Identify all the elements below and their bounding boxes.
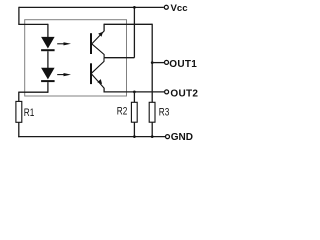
svg-text:OUT1: OUT1 bbox=[169, 59, 197, 70]
svg-text:Vcc: Vcc bbox=[171, 3, 189, 14]
resistor R1 body bbox=[16, 101, 22, 122]
wire between LED D1 and LED D2 bbox=[47, 51, 49, 68]
LED D2 triangle bbox=[41, 68, 55, 80]
resistor R3 body bbox=[149, 102, 155, 122]
node dot OUT1 junction bbox=[151, 61, 154, 64]
node dot R2 bottom junction bbox=[133, 135, 136, 138]
node dot R2 top junction bbox=[133, 91, 136, 94]
terminal OUT1 circle bbox=[165, 60, 169, 64]
wire Vcc top rail bbox=[19, 6, 164, 8]
wire OUT1 vertical (to R3) bbox=[151, 24, 153, 103]
wire LED D2 cathode drop bbox=[47, 82, 49, 93]
optocoupler package box U1 bbox=[25, 20, 127, 96]
wire Q2 emitter vertical down bbox=[103, 88, 105, 93]
wire GND bottom rail bbox=[18, 136, 165, 138]
wire Vcc left jog down bbox=[18, 7, 20, 25]
wire OUT1 stub to terminal bbox=[152, 62, 164, 64]
wire R1 bottom lead bbox=[18, 122, 20, 137]
wire LED anode horizontal bbox=[18, 23, 48, 25]
terminal OUT2 circle bbox=[165, 90, 169, 94]
wire R2 bottom lead bbox=[133, 122, 135, 136]
transistor Q1 collector diagonal bbox=[91, 44, 104, 58]
svg-text:R3: R3 bbox=[159, 106, 170, 118]
wire Vcc rail vertical bbox=[133, 7, 135, 57]
wire R2 top lead bbox=[133, 92, 135, 102]
wire R1 top lead bbox=[18, 92, 20, 102]
LED D1 triangle bbox=[41, 37, 55, 49]
transistor Q2 collector diagonal bbox=[91, 58, 104, 74]
resistor R2 body bbox=[131, 102, 137, 122]
transistor Q1 emitter diagonal with arrow bbox=[91, 31, 104, 44]
wire OUT1 rail horizontal bbox=[104, 23, 152, 25]
transistor Q2 emitter diagonal with arrow bbox=[91, 74, 104, 88]
light arrow channel 1 bbox=[57, 42, 71, 45]
light arrow channel 2 bbox=[57, 73, 71, 76]
wire cathode horizontal to R1 bbox=[19, 91, 48, 93]
wire LED anode drop bbox=[47, 24, 49, 38]
terminal Vcc circle bbox=[164, 5, 168, 9]
LED D2 cathode bar bbox=[41, 80, 55, 82]
LED D1 cathode bar bbox=[41, 49, 55, 51]
wire Q1 emitter vertical up bbox=[103, 24, 105, 32]
svg-text:OUT2: OUT2 bbox=[170, 89, 198, 100]
wire R3 bottom lead bbox=[151, 122, 153, 136]
wire collector rail horizontal bbox=[104, 57, 134, 59]
transistor Q2 base bar bbox=[90, 63, 92, 84]
svg-text:R2: R2 bbox=[117, 105, 128, 117]
node dot R3 bottom junction bbox=[151, 135, 154, 138]
transistor Q1 base bar bbox=[90, 33, 92, 54]
svg-text:GND: GND bbox=[171, 132, 193, 143]
terminal GND circle bbox=[166, 135, 170, 139]
node dot Vcc junction bbox=[133, 6, 136, 9]
svg-text:R1: R1 bbox=[24, 107, 35, 119]
wire OUT2 horizontal bbox=[104, 91, 164, 93]
